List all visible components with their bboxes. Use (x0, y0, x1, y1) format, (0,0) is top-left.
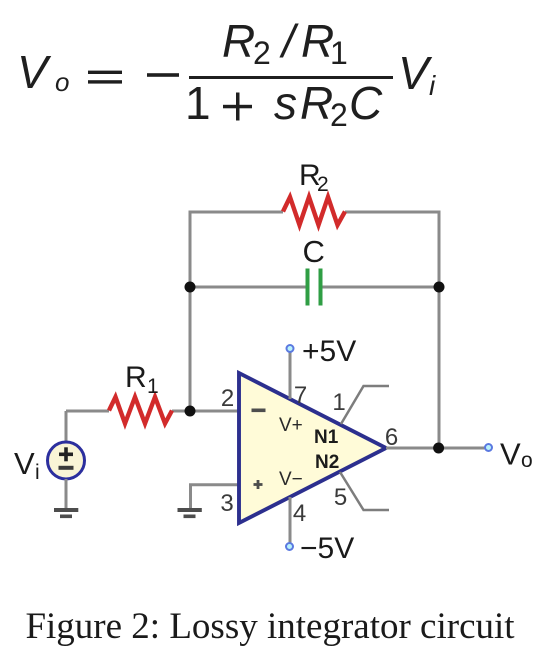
wire capacitor right (322, 286, 439, 289)
junction node (output) (433, 443, 444, 454)
svg-text:Figure 2: Lossy integrator cir: Figure 2: Lossy integrator circuit (25, 606, 515, 647)
svg-text:7: 7 (294, 382, 307, 409)
svg-text:V: V (500, 437, 521, 472)
wire source stem bottom (65, 479, 68, 509)
label Vi (14, 446, 40, 484)
wire R1 right (172, 410, 239, 413)
junction node (right, C) (434, 282, 445, 293)
svg-text:6: 6 (385, 424, 398, 451)
svg-text:3: 3 (220, 490, 233, 517)
label Vo (500, 437, 533, 473)
svg-text:N1: N1 (314, 427, 339, 448)
svg-text:5: 5 (334, 484, 347, 511)
wire capacitor left (190, 286, 306, 289)
svg-text:2: 2 (317, 173, 329, 196)
svg-text:1: 1 (332, 389, 345, 416)
svg-text:R: R (125, 361, 147, 394)
wire output (386, 447, 488, 450)
terminal +5V (287, 345, 294, 352)
svg-text:2: 2 (253, 35, 271, 71)
op-amp U1 (239, 373, 386, 523)
svg-text:2: 2 (330, 97, 348, 133)
label R2 (299, 159, 329, 196)
terminal -5V (286, 543, 293, 550)
ground (source) (54, 508, 78, 518)
svg-text:1: 1 (147, 375, 159, 398)
source Vi (48, 442, 85, 479)
wire pin3 to ground (191, 485, 240, 508)
svg-text:+5V: +5V (302, 335, 356, 368)
svg-text:s: s (274, 77, 297, 129)
ground (pin 3) (178, 508, 202, 518)
svg-text:1: 1 (185, 77, 211, 129)
capacitor C (308, 269, 321, 306)
wire top loop right segment (345, 212, 439, 448)
wire top loop left segment (190, 212, 283, 411)
svg-text:i: i (35, 461, 40, 484)
svg-text:1: 1 (330, 35, 348, 71)
svg-text:C: C (303, 234, 325, 269)
svg-text:V: V (17, 46, 52, 98)
svg-text:o: o (55, 67, 69, 97)
svg-text:V: V (14, 446, 35, 481)
junction node (left, C) (185, 282, 196, 293)
wire +5V supply (289, 352, 292, 399)
wire source stem top (65, 411, 68, 442)
svg-text:V+: V+ (279, 415, 303, 436)
svg-text:4: 4 (293, 500, 306, 527)
svg-text:i: i (429, 70, 436, 101)
inverting input marker (252, 409, 266, 413)
formula Vo = -(R2/R1)/(1+sR2C) Vi (17, 15, 436, 133)
svg-text:C: C (349, 77, 383, 129)
resistor R1 (109, 397, 172, 424)
svg-text:R: R (222, 15, 255, 67)
wire -5V supply (289, 497, 292, 543)
junction node (R1 / inverting input) (185, 406, 196, 417)
svg-text:V−: V− (279, 469, 303, 490)
wire pin 5 stub (340, 472, 389, 510)
svg-text:−5V: −5V (300, 532, 354, 565)
svg-text:o: o (521, 449, 533, 472)
svg-text:R: R (300, 77, 333, 129)
svg-text:N2: N2 (315, 452, 339, 473)
resistor R2 (283, 197, 345, 225)
non-inverting input marker (254, 480, 263, 489)
svg-text:2: 2 (221, 385, 234, 412)
svg-text:V: V (398, 47, 433, 99)
terminal Vo (485, 444, 492, 451)
wire R1 left (66, 410, 109, 413)
wire pin 1 stub (341, 386, 389, 424)
label R1 (125, 361, 159, 398)
